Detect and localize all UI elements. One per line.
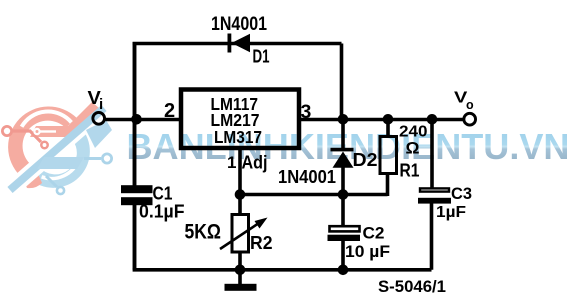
svg-text:1N4001: 1N4001 [278,166,336,187]
svg-text:3: 3 [301,101,312,123]
svg-text:1µF: 1µF [436,204,466,221]
svg-text:S-5046/1: S-5046/1 [378,277,446,296]
svg-text:D1: D1 [253,47,270,67]
svg-text:5KΩ: 5KΩ [185,221,222,244]
svg-text:10 µF: 10 µF [345,242,390,261]
svg-text:1N4001: 1N4001 [211,14,267,35]
svg-text:BANLINHKIENDIENTU.VN: BANLINHKIENDIENTU.VN [127,126,570,167]
svg-text:0.1µF: 0.1µF [139,202,185,222]
svg-text:R2: R2 [250,232,273,253]
svg-text:o: o [466,98,474,112]
svg-text:C1: C1 [153,183,173,204]
svg-text:C3: C3 [451,185,472,203]
svg-text:C2: C2 [363,225,385,243]
svg-text:2: 2 [164,100,175,122]
